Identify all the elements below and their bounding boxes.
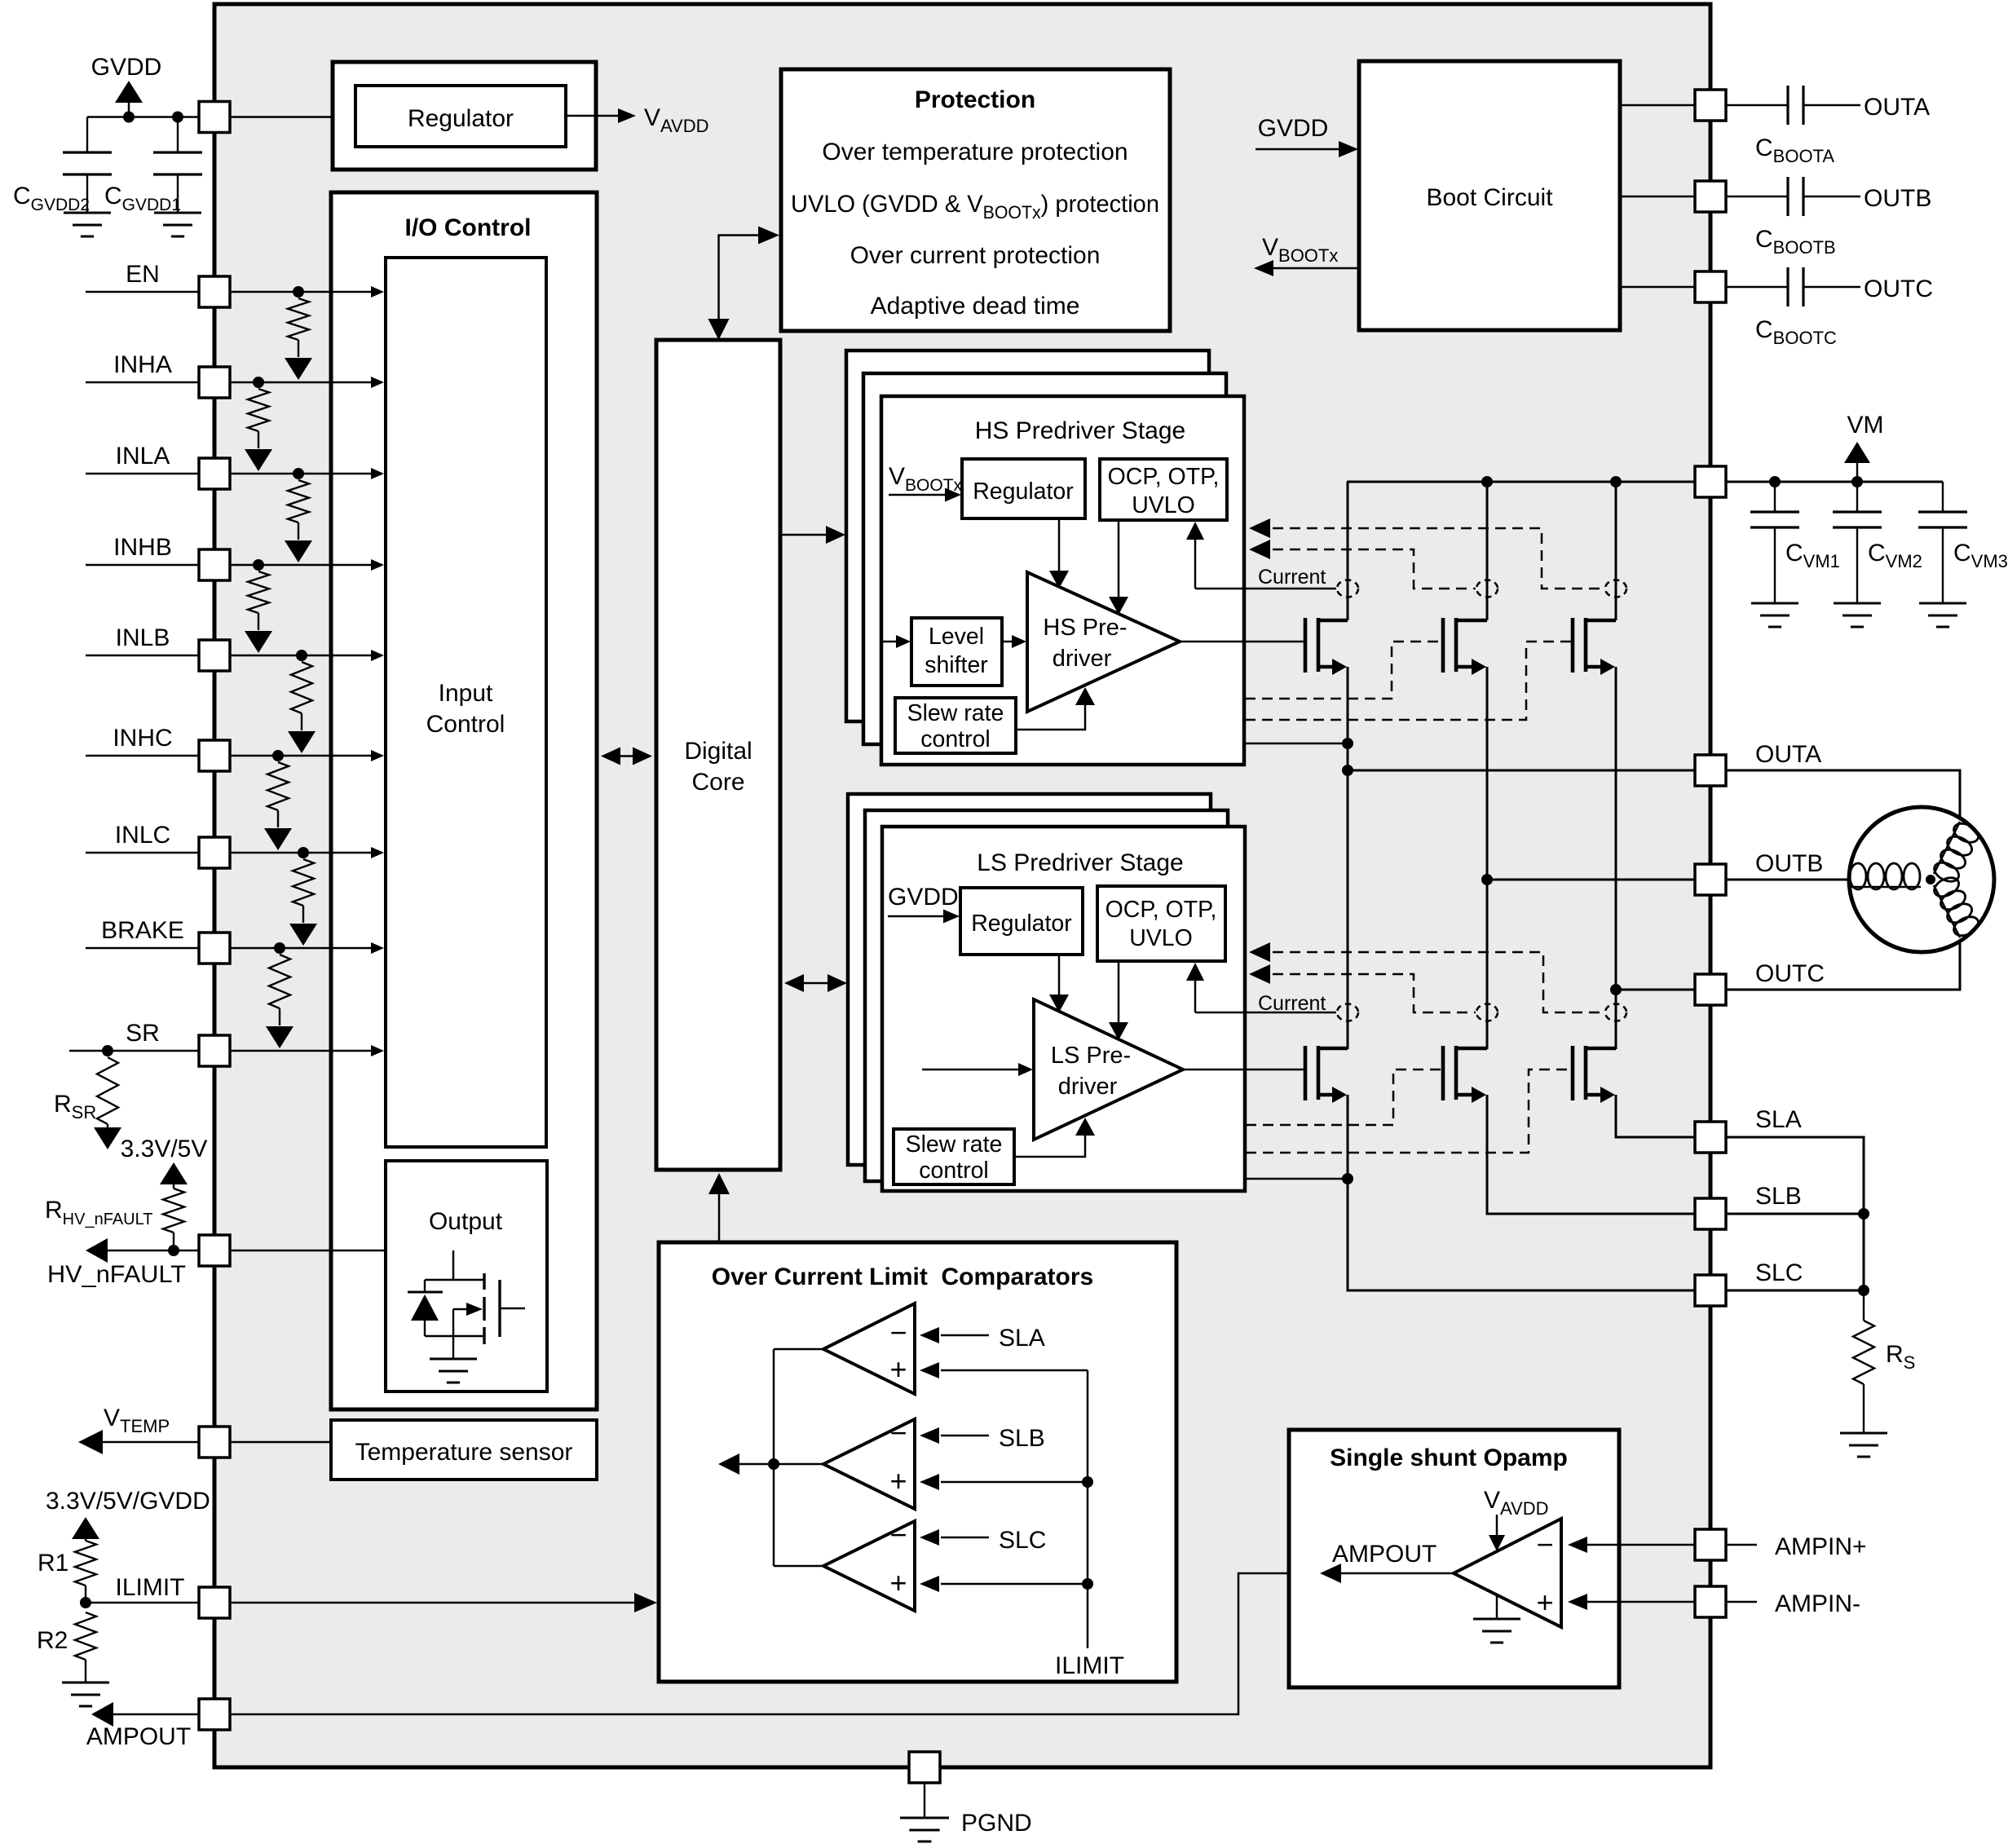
resistor RSR — [97, 1057, 118, 1124]
svg-text:OUTA: OUTA — [1864, 94, 1930, 121]
wire comparator 1 output — [774, 1348, 823, 1351]
wire LS dashed gate C — [1246, 1070, 1571, 1153]
capacitor CVM2 — [1856, 482, 1858, 512]
terminal SLA pin — [1695, 1122, 1726, 1153]
terminal BOOTC pin — [1695, 271, 1726, 302]
svg-text:Over Current Limit Comparator: Over Current Limit Comparators — [712, 1264, 1093, 1290]
svg-text:CBOOTC: CBOOTC — [1755, 316, 1837, 348]
svg-text:Level: Level — [929, 624, 984, 650]
wire VTEMP output arrow — [82, 1441, 199, 1444]
wire INHA input — [86, 382, 199, 384]
wire comparator 2 output — [774, 1463, 823, 1466]
wire VTEMP to Temperature sensor — [230, 1441, 331, 1444]
svg-text:SLB: SLB — [1755, 1183, 1802, 1210]
node LS A source link — [1342, 1173, 1353, 1184]
svg-text:+: + — [889, 1352, 907, 1386]
op-amp comparator 2 — [823, 1419, 915, 1509]
wire ILIMIT to comparators — [230, 1602, 649, 1604]
wire LS FET C source to SLA — [1616, 1095, 1695, 1137]
block LS Slew rate control — [894, 1129, 1014, 1184]
svg-text:GVDD: GVDD — [91, 54, 162, 81]
wire VM rail (external) — [1726, 481, 1943, 483]
wire AMPOUT output arrow — [95, 1713, 199, 1716]
wire ILIMIT to comparator 2 plus — [941, 1481, 1088, 1484]
svg-text:Slew rate: Slew rate — [906, 1131, 1003, 1158]
capacitor CBOOTA — [1726, 104, 1788, 107]
wire INHC input — [86, 755, 199, 757]
wire LS FET B source to SLB — [1487, 1095, 1695, 1214]
svg-text:CVM3: CVM3 — [1953, 540, 2008, 571]
svg-text:OUTB: OUTB — [1755, 850, 1823, 877]
transistor Q1 (open-drain output) — [483, 1273, 485, 1290]
current sense circle HS B — [1476, 580, 1498, 598]
block LS Predriver Stage (middle) — [865, 810, 1228, 1181]
svg-text:AMPOUT: AMPOUT — [1332, 1541, 1436, 1568]
wire ILIMIT to comparator 1 plus — [941, 1369, 1088, 1372]
resistor R2 — [75, 1612, 96, 1660]
block Over Current Limit Comparators — [659, 1242, 1176, 1682]
node GVDD junction 2 — [172, 112, 183, 123]
block I/O Control — [331, 192, 597, 1409]
resistor R1 — [75, 1541, 96, 1586]
wire AMPIN- stub — [1726, 1601, 1757, 1603]
wire SLB external — [1726, 1213, 1864, 1215]
wire HV_nFAULT into output FET — [452, 1250, 455, 1280]
block Output — [386, 1161, 547, 1392]
svg-text:INHB: INHB — [113, 534, 172, 561]
transistor HS FET A — [1304, 618, 1308, 673]
wire output FET top rail — [425, 1279, 484, 1281]
svg-text:OCP, OTP,: OCP, OTP, — [1106, 897, 1217, 923]
svg-text:Boot Circuit: Boot Circuit — [1426, 184, 1553, 211]
svg-text:SLA: SLA — [999, 1325, 1045, 1352]
node OUTC junction — [1610, 984, 1622, 995]
svg-text:HS Predriver Stage: HS Predriver Stage — [975, 417, 1185, 444]
wire SR input — [69, 1050, 199, 1052]
svg-text:ILIMIT: ILIMIT — [1055, 1652, 1124, 1679]
svg-text:OCP, OTP,: OCP, OTP, — [1108, 464, 1220, 490]
wire HV_nFAULT to Output block — [230, 1250, 453, 1252]
op-amp U1 (shunt amplifier) — [1454, 1519, 1561, 1627]
wire Digital Core to LS Predriver (bidirectional) — [790, 982, 840, 985]
node VM drain B — [1481, 476, 1493, 487]
resistor INLA pulldown — [288, 480, 309, 523]
svg-text:GVDD: GVDD — [1258, 115, 1329, 142]
ground output FET — [452, 1336, 454, 1359]
svg-text:Regulator: Regulator — [408, 105, 514, 132]
wire HS FET A source to OUTA — [1347, 667, 1349, 770]
svg-text:SLA: SLA — [1755, 1106, 1802, 1133]
wire comparator output arrow — [726, 1463, 774, 1466]
transistor LS FET A — [1304, 1046, 1308, 1100]
terminal BRAKE pin — [199, 933, 230, 964]
wire EN to Input Control — [230, 291, 377, 293]
svg-text:OUTA: OUTA — [1755, 741, 1821, 768]
svg-text:−: − — [889, 1416, 907, 1449]
svg-text:HS Pre-: HS Pre- — [1043, 615, 1127, 641]
wire SLC to comparator 3 minus — [941, 1537, 989, 1539]
GVDD power arrow — [128, 103, 130, 117]
chip outline (gate driver IC boundary) — [214, 4, 1710, 1767]
block HS Predriver Stage (back) — [846, 351, 1209, 721]
wire comparator 3 output — [774, 1565, 823, 1568]
current sense circle LS B — [1476, 1004, 1498, 1021]
svg-text:R2: R2 — [37, 1627, 68, 1654]
wire OUTA to motor — [1726, 770, 1960, 816]
svg-text:INLC: INLC — [115, 822, 170, 849]
current sense circle HS A — [1337, 580, 1358, 598]
wire VAVDD to opamp — [1496, 1515, 1498, 1542]
terminal GVDD pin — [199, 102, 230, 133]
block LS Predriver Stage (back) — [848, 794, 1211, 1165]
wire GVDD to Regulator — [230, 116, 333, 118]
svg-text:SLC: SLC — [1755, 1259, 1803, 1286]
block Input Control — [386, 258, 546, 1147]
svg-text:Over current protection: Over current protection — [850, 242, 1101, 269]
supply arrow 3.3V/5V — [160, 1162, 188, 1184]
wire INLA input — [86, 473, 199, 475]
wire BRAKE to Input Control — [230, 947, 377, 950]
wire LS dashed gate B — [1246, 1070, 1441, 1125]
node SLB sense junction — [1858, 1208, 1869, 1220]
wire OUTA to LS FET A drain — [1347, 770, 1349, 1049]
capacitor CBOOTB — [1726, 196, 1788, 198]
wire HS predriver source link (phase A) — [1244, 743, 1348, 745]
terminal OUTB pin — [1695, 864, 1726, 895]
wire HS dashed feedback 2 (phase B) — [1256, 549, 1476, 589]
svg-text:AMPIN-: AMPIN- — [1775, 1590, 1860, 1617]
coil motor phase C winding — [1934, 885, 1960, 937]
node ILIMIT bus comp2 — [1082, 1476, 1093, 1488]
transistor LS FET B — [1441, 1046, 1445, 1100]
wire VBOOTx out of Boot Circuit — [1260, 267, 1359, 270]
wire Boot Circuit to OUTA bootstrap pin — [1620, 104, 1695, 107]
svg-text:R1: R1 — [38, 1550, 68, 1577]
transistor HS FET C — [1571, 618, 1575, 673]
block LS OCP OTP UVLO — [1097, 886, 1225, 961]
svg-text:Digital: Digital — [684, 738, 752, 765]
wire SLA external — [1726, 1137, 1864, 1290]
terminal ILIMIT pin — [199, 1587, 230, 1618]
block HS Predriver Stage (front) — [881, 396, 1244, 765]
block Digital Core — [656, 340, 780, 1170]
svg-text:Regulator: Regulator — [971, 911, 1072, 937]
node INLC pulldown junction — [298, 847, 309, 858]
resistor INHB pulldown — [248, 571, 269, 613]
node OUTA junction — [1342, 765, 1353, 776]
svg-text:BRAKE: BRAKE — [101, 917, 184, 944]
terminal SLB pin — [1695, 1198, 1726, 1229]
wire LS regulator to predriver — [1058, 955, 1061, 1003]
arrow VM supply — [1856, 453, 1858, 482]
wire AMPOUT from opamp (internal arrow) — [1341, 1572, 1454, 1575]
transistor HS FET B — [1441, 618, 1445, 673]
resistor RS (shunt) — [1863, 1290, 1865, 1321]
wire SR to Input Control — [230, 1050, 377, 1052]
wire INHC to Input Control — [230, 755, 377, 757]
wire INLB to Input Control — [230, 655, 377, 657]
wire output FET bottom rail — [425, 1335, 484, 1337]
wire HS current sense feedback into OCP — [1194, 530, 1197, 589]
node HS A source link — [1342, 738, 1353, 749]
wire INLB input — [86, 655, 199, 657]
wire OUTB line — [1487, 879, 1695, 881]
block Temperature sensor — [331, 1420, 597, 1480]
svg-text:Adaptive dead time: Adaptive dead time — [871, 293, 1080, 320]
svg-text:UVLO: UVLO — [1132, 492, 1195, 518]
wire Level shifter to predriver — [1002, 641, 1019, 643]
svg-text:Current: Current — [1258, 992, 1326, 1015]
wire VM to HS drains — [1347, 482, 1349, 620]
node VM cap junction 1 — [1769, 476, 1781, 487]
terminal INLA pin — [199, 458, 230, 489]
terminal INLB pin — [199, 640, 230, 671]
wire HS regulator to predriver — [1058, 518, 1061, 579]
node SLC sense junction — [1858, 1285, 1869, 1296]
wire INHA to Input Control — [230, 382, 377, 384]
wire LS dashed feedback 2 (phase B) — [1256, 974, 1476, 1012]
node INHC pulldown junction — [272, 750, 284, 761]
svg-text:RHV_nFAULT: RHV_nFAULT — [45, 1197, 152, 1228]
node VM cap junction 2 — [1851, 476, 1863, 487]
wire Digital Core to comparators — [718, 1182, 721, 1242]
svg-text:3.3V/5V/GVDD: 3.3V/5V/GVDD — [46, 1488, 210, 1515]
node ILIMIT divider junction — [80, 1597, 91, 1608]
svg-text:OUTC: OUTC — [1864, 276, 1933, 302]
wire HV_nFAULT output arrow — [89, 1250, 199, 1252]
block Single shunt Opamp — [1289, 1430, 1619, 1687]
svg-text:Protection: Protection — [915, 86, 1035, 113]
svg-text:−: − — [889, 1316, 907, 1349]
svg-text:SLC: SLC — [999, 1527, 1046, 1554]
node BRAKE pulldown junction — [274, 942, 285, 954]
svg-text:VM: VM — [1847, 412, 1884, 439]
svg-text:PGND: PGND — [961, 1810, 1032, 1837]
svg-text:CVM2: CVM2 — [1868, 540, 1922, 571]
svg-text:Control: Control — [426, 711, 505, 738]
svg-text:INHA: INHA — [113, 351, 172, 378]
capacitor CVM1 — [1774, 482, 1776, 512]
capacitor CVM3 — [1942, 482, 1944, 512]
wire GVDD to LS regulator — [888, 915, 952, 918]
wire OUTB to LS FET B drain — [1486, 880, 1489, 1049]
svg-text:CVM1: CVM1 — [1785, 540, 1840, 571]
svg-text:CGVDD2: CGVDD2 — [13, 183, 90, 214]
block HS OCP OTP UVLO — [1100, 459, 1227, 520]
svg-text:3.3V/5V: 3.3V/5V — [121, 1136, 208, 1162]
wire HS FET C source to OUTC — [1615, 667, 1617, 990]
wire OUTC to LS FET C drain — [1615, 990, 1617, 1049]
node EN pulldown junction — [293, 286, 304, 298]
svg-text:Current: Current — [1258, 566, 1326, 589]
svg-text:VTEMP: VTEMP — [104, 1405, 170, 1436]
wire VBOOTx to HS regulator — [889, 494, 954, 496]
wire ILIMIT reference bus — [1087, 1370, 1089, 1648]
svg-text:LS Pre-: LS Pre- — [1051, 1043, 1131, 1069]
wire LS predriver source link (phase A) — [1245, 1178, 1348, 1180]
node VM drain C — [1610, 476, 1622, 487]
wire HS slew rate to predriver — [1016, 697, 1085, 730]
resistor BRAKE pulldown — [269, 955, 290, 1008]
svg-text:+: + — [1536, 1586, 1553, 1619]
wire HS OCP to predriver — [1118, 520, 1120, 605]
block HS Regulator — [962, 459, 1085, 518]
svg-text:shifter: shifter — [925, 652, 988, 678]
wire LS OCP to predriver — [1118, 961, 1120, 1030]
node ILIMIT bus comp3 — [1082, 1578, 1093, 1590]
node HV_nFAULT junction — [168, 1245, 179, 1256]
svg-text:driver: driver — [1058, 1074, 1118, 1100]
node INLB pulldown junction — [296, 650, 307, 661]
terminal BOOTB pin — [1695, 181, 1726, 212]
terminal AMPIN+ pin — [1695, 1529, 1726, 1560]
wire input to Level shifter — [881, 641, 903, 643]
svg-text:LS Predriver Stage: LS Predriver Stage — [977, 849, 1183, 876]
wire AMPOUT from opamp — [230, 1573, 1289, 1714]
wire LS FET A source to SLC — [1348, 1095, 1695, 1290]
ground opamp — [1496, 1595, 1498, 1619]
diode D1 (output clamp) — [424, 1280, 426, 1292]
svg-text:Temperature sensor: Temperature sensor — [355, 1439, 573, 1466]
terminal SLC pin — [1695, 1275, 1726, 1306]
terminal HV_nFAULT pin — [199, 1235, 230, 1266]
wire Boot Circuit to OUTB bootstrap pin — [1620, 196, 1695, 198]
svg-text:Output: Output — [429, 1208, 503, 1235]
wire VAVDD output arrow — [566, 115, 624, 117]
svg-text:INLA: INLA — [116, 443, 170, 470]
svg-text:Core: Core — [691, 769, 744, 796]
wire AMPIN- to opamp plus input — [1586, 1601, 1695, 1603]
wire LS dashed feedback 1 (phase C) — [1256, 952, 1604, 1012]
block LS Regulator — [960, 888, 1083, 955]
svg-text:−: − — [889, 1518, 907, 1551]
svg-text:ILIMIT: ILIMIT — [115, 1574, 184, 1601]
wire INHB to Input Control — [230, 564, 377, 567]
wire OUTC line — [1616, 989, 1695, 991]
block Boot Circuit — [1359, 61, 1620, 330]
block Protection — [781, 69, 1170, 331]
node INLA pulldown junction — [293, 468, 304, 479]
svg-text:INLB: INLB — [116, 624, 170, 651]
resistor INLB pulldown — [291, 662, 312, 713]
svg-text:SLB: SLB — [999, 1425, 1045, 1452]
wire SLC external — [1726, 1290, 1864, 1292]
wire Boot Circuit to OUTC bootstrap pin — [1620, 286, 1695, 289]
wire LS slew rate to predriver — [1014, 1127, 1085, 1157]
svg-text:INHC: INHC — [113, 725, 172, 752]
wire ILIMIT to comparator 3 plus — [941, 1583, 1088, 1586]
svg-text:RS: RS — [1886, 1341, 1915, 1373]
op-amp comparator 1 — [823, 1303, 915, 1394]
terminal INHC pin — [199, 740, 230, 771]
svg-text:I/O Control: I/O Control — [405, 214, 532, 241]
current sense circle LS A — [1337, 1004, 1358, 1021]
motor (3-phase BLDC) — [1849, 807, 1994, 952]
supply arrow 3.3V/5V/GVDD — [72, 1517, 99, 1539]
svg-text:RSR: RSR — [54, 1091, 96, 1122]
node SR / RSR junction — [102, 1045, 113, 1056]
wire VM rail (internal) — [1347, 481, 1695, 483]
node motor star point — [1926, 875, 1935, 884]
resistor INHC pulldown — [267, 762, 289, 810]
terminal EN pin — [199, 276, 230, 307]
svg-text:Slew rate: Slew rate — [907, 700, 1004, 726]
terminal INHA pin — [199, 367, 230, 398]
wire ILIMIT input — [86, 1602, 199, 1604]
svg-text:Regulator: Regulator — [973, 479, 1074, 505]
wire OUTB to motor — [1726, 879, 1849, 881]
terminal AMPOUT pin — [199, 1699, 230, 1730]
svg-text:OUTC: OUTC — [1755, 960, 1825, 987]
wire GVDD into Boot Circuit — [1256, 148, 1351, 151]
wire INLC to Input Control — [230, 852, 377, 854]
node comparator output junction — [768, 1458, 779, 1470]
svg-text:driver: driver — [1053, 646, 1112, 672]
wire SLB to comparator 2 minus — [941, 1435, 989, 1437]
wire OUTC to motor — [1726, 943, 1960, 990]
svg-text:OUTB: OUTB — [1864, 185, 1931, 212]
node INHB pulldown junction — [253, 559, 264, 571]
terminal OUTC pin — [1695, 974, 1726, 1005]
wire LS current sense feedback into OCP — [1194, 971, 1197, 1012]
wire HS dashed gate C — [1245, 642, 1571, 720]
capacitor CGVDD2 — [86, 117, 88, 153]
svg-text:Input: Input — [439, 680, 493, 707]
ground RS — [1840, 1432, 1887, 1435]
svg-text:EN: EN — [126, 261, 160, 288]
svg-text:CBOOTB: CBOOTB — [1755, 226, 1836, 258]
svg-text:HV_nFAULT: HV_nFAULT — [47, 1261, 186, 1288]
svg-text:CGVDD1: CGVDD1 — [104, 183, 181, 214]
wire GVDD net — [87, 116, 199, 118]
svg-text:Over temperature protection: Over temperature protection — [822, 139, 1128, 165]
svg-text:Single shunt Opamp: Single shunt Opamp — [1330, 1444, 1568, 1471]
svg-text:−: − — [1536, 1528, 1553, 1561]
svg-text:control: control — [919, 1158, 989, 1184]
terminal VTEMP pin — [199, 1427, 230, 1458]
wire INLC input — [86, 852, 199, 854]
block HS Predriver Stage (middle) — [863, 373, 1226, 744]
wire HS dashed gate B — [1245, 642, 1441, 699]
terminal INHB pin — [199, 549, 230, 580]
wire Digital Core to HS Predriver — [780, 534, 838, 536]
terminal OUTA pin — [1695, 755, 1726, 786]
svg-text:GVDD: GVDD — [888, 884, 959, 911]
wire HS predriver output (gate A) — [1180, 641, 1305, 643]
capacitor CBOOTC — [1726, 286, 1788, 289]
block Regulator (inner) — [355, 86, 566, 147]
capacitor CGVDD1 — [177, 117, 179, 153]
wire LS predriver output (gate A) — [1183, 1069, 1305, 1071]
terminal AMPIN- pin — [1695, 1586, 1726, 1617]
block HS Slew rate control — [895, 698, 1016, 753]
wire Input Control to Digital Core (bidirectional) — [607, 755, 647, 757]
resistor EN pulldown — [288, 298, 309, 340]
wire EN input — [86, 291, 199, 293]
svg-text:+: + — [889, 1464, 907, 1497]
svg-text:SR: SR — [126, 1020, 160, 1047]
resistor INHA pulldown — [248, 389, 269, 431]
wire OUTA line — [1348, 770, 1695, 772]
transistor LS FET C — [1571, 1046, 1575, 1100]
svg-text:+: + — [889, 1566, 907, 1599]
terminal PGND pin — [909, 1752, 940, 1783]
wire comparator output bus — [773, 1349, 775, 1566]
node GVDD junction 1 — [123, 112, 135, 123]
wire SLA to comparator 1 minus — [941, 1334, 989, 1337]
wire INLA to Input Control — [230, 473, 377, 475]
wire Protection to Digital Core connector — [719, 236, 772, 333]
